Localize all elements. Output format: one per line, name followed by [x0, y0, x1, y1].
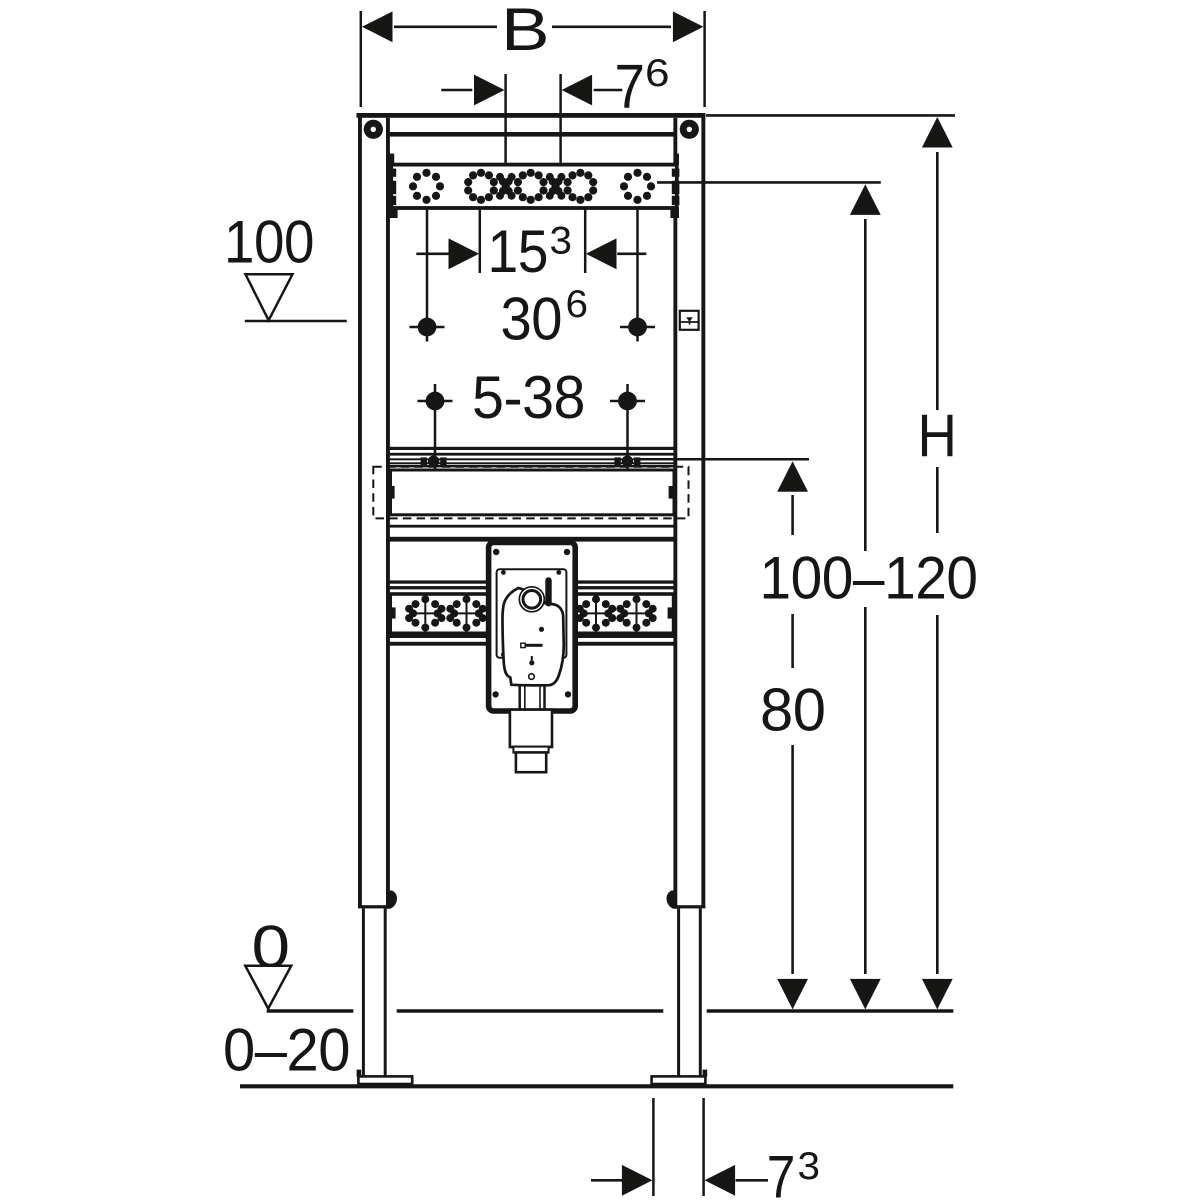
- svg-text:6: 6: [566, 283, 588, 326]
- dimension 7-6 extension lines: [504, 74, 507, 165]
- right telescopic leg: [677, 908, 680, 1076]
- inner mounting plate: [497, 569, 567, 658]
- svg-text:15: 15: [488, 218, 549, 285]
- plate end tabs right: [672, 169, 680, 177]
- upper cross member: [389, 132, 674, 137]
- dimension 7-6 arrows: [441, 89, 472, 92]
- finished floor line: [267, 1009, 354, 1013]
- tap hole 30-6 right: [628, 318, 647, 337]
- left foot plate: [358, 1076, 412, 1084]
- trap drip mark: [531, 656, 533, 660]
- fixing hole 5-38 right: [626, 384, 629, 470]
- plate flower cluster 2: [446, 595, 486, 631]
- datum triangle 100: [246, 274, 293, 320]
- right foot plate: [652, 1076, 706, 1084]
- H top extension line: [706, 114, 955, 117]
- plate flower cluster 4: [616, 595, 656, 631]
- 80 dimension line: [791, 495, 794, 535]
- dimension B extension lines: [360, 11, 363, 107]
- lower crossbar bottom lines: [389, 635, 489, 638]
- svg-text:B: B: [501, 0, 549, 63]
- trap small hole: [529, 674, 535, 680]
- dimension 15-3 extension lines: [479, 208, 482, 273]
- 100-120 leader line: [657, 181, 881, 184]
- outlet pipe below box: [510, 710, 552, 747]
- plate flower cluster 1: [405, 595, 445, 631]
- H dimension line: [936, 152, 939, 410]
- right rail inner wall: [673, 118, 677, 908]
- lower perforated plate left: [390, 594, 488, 633]
- crossbar bolt right: [614, 456, 640, 467]
- dimension 15-3 arrows: [416, 253, 448, 256]
- fixing hole 5-38 left: [434, 384, 437, 470]
- svg-text:7: 7: [615, 53, 645, 122]
- rail tab above plate left: [389, 154, 394, 165]
- rail tab above plate right: [674, 154, 679, 165]
- crossbar bolt rail: [389, 458, 674, 460]
- drain mounting box: [489, 542, 576, 711]
- svg-text:3: 3: [550, 220, 572, 263]
- 80 leader line: [640, 458, 809, 461]
- top mounting plate: [391, 165, 677, 208]
- rail tab below plate right: [670, 207, 679, 218]
- label 100-120: [756, 552, 980, 602]
- lower perforated plate right: [575, 594, 673, 633]
- trap detail dot: [539, 627, 544, 632]
- outlet pipe in box: [520, 684, 545, 709]
- crossbar lower lines: [389, 525, 674, 528]
- plate end tabs left: [389, 169, 397, 177]
- extension line plate-to-hole left: [426, 208, 429, 341]
- structural floor line: [240, 1084, 953, 1088]
- crossbar body: [391, 470, 675, 515]
- right rail outer wall: [701, 113, 705, 908]
- dimension 7-3 extension lines: [652, 1098, 655, 1196]
- svg-text:5-38: 5-38: [472, 364, 585, 431]
- svg-text:H: H: [918, 402, 957, 469]
- crossbar adjustable range (dashed): [373, 467, 688, 519]
- siphon inlet circle: [519, 587, 544, 612]
- dimension 7-3 arrows: [591, 1179, 622, 1182]
- crossbar clip right: [669, 486, 675, 499]
- plate hole ring left: [409, 169, 444, 204]
- label 80: [757, 686, 828, 732]
- 100-120 dimension line: [864, 219, 867, 551]
- svg-text:3: 3: [798, 1145, 820, 1188]
- frame top bar: [357, 113, 706, 118]
- plate flower cluster 3: [576, 595, 616, 631]
- overflow connector: [545, 577, 551, 606]
- plate centre hole pattern: [464, 169, 597, 204]
- svg-text:7: 7: [767, 1144, 795, 1200]
- plate hole ring right: [620, 169, 655, 204]
- rail tab below plate left: [389, 207, 398, 218]
- corner screw right: [680, 120, 699, 139]
- spirit level indicator: [680, 311, 699, 330]
- leg clip right: [666, 891, 677, 909]
- svg-text:6: 6: [645, 52, 669, 95]
- datum triangle 0: [245, 966, 291, 1009]
- lower plate tab right: [668, 607, 675, 618]
- left telescopic leg: [362, 908, 365, 1076]
- corner screw left: [364, 120, 383, 139]
- trap slot: [525, 644, 543, 647]
- crossbar top rail: [389, 447, 674, 450]
- lower plate tab left: [388, 607, 395, 618]
- left rail inner wall: [386, 118, 390, 908]
- svg-text:30: 30: [501, 286, 563, 353]
- svg-text:100–120: 100–120: [760, 545, 978, 612]
- siphon trap body: [502, 588, 563, 685]
- left rail outer wall: [358, 113, 362, 908]
- tap hole 30-6 left: [418, 318, 437, 337]
- crossbar bolt left: [421, 456, 447, 467]
- label H: [915, 412, 958, 458]
- svg-text:0–20: 0–20: [223, 1017, 350, 1084]
- left rail bottom cap: [358, 905, 390, 908]
- svg-text:100: 100: [224, 209, 314, 276]
- crossbar clip left: [389, 486, 395, 499]
- right rail bottom cap: [674, 905, 706, 908]
- extension line plate-to-hole right: [636, 208, 639, 341]
- lower crossbar top lines: [389, 580, 489, 583]
- svg-text:80: 80: [760, 677, 826, 744]
- leg clip left: [387, 891, 398, 909]
- box corner screws: [492, 549, 571, 698]
- dimension B line: [394, 25, 497, 28]
